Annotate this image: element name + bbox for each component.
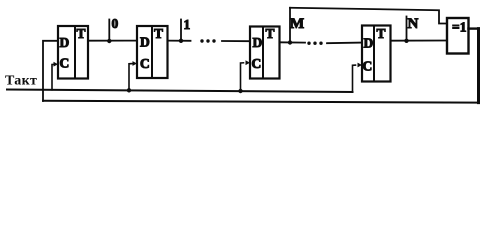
svg-text:D: D — [253, 35, 263, 50]
svg-text:C: C — [60, 56, 70, 71]
wire DD3.Q to tap M — [280, 41, 306, 43]
flip-flop DD4 divider — [373, 26, 375, 82]
flip-flop DD4 box — [362, 26, 391, 82]
wire clock stub DD2 — [129, 64, 132, 91]
svg-text:=1: =1 — [452, 20, 467, 35]
ellipsis dots left — [200, 39, 203, 42]
node tap 0 junction — [107, 39, 111, 43]
ellipsis dots right — [307, 42, 310, 45]
svg-text:0: 0 — [112, 16, 119, 31]
flip-flop DD1 divider — [74, 26, 76, 79]
wire into DD4 — [327, 42, 362, 45]
clock arrow DD4 — [358, 63, 363, 68]
wire tap M riser — [289, 8, 291, 43]
wire tap N — [406, 17, 408, 41]
svg-text:C: C — [363, 59, 373, 74]
node clock junction DD3 — [238, 89, 242, 93]
wire feedback bottom — [43, 101, 479, 103]
svg-text:1: 1 — [184, 17, 191, 32]
svg-text:T: T — [77, 26, 86, 41]
clock arrow DD1 — [54, 62, 59, 67]
svg-text:T: T — [266, 26, 275, 41]
wire feedback riser — [43, 41, 58, 101]
svg-text:Такт: Такт — [5, 74, 37, 89]
node tap 1 junction — [179, 39, 183, 43]
svg-text:T: T — [377, 26, 386, 41]
wire top bus M to XOR — [290, 8, 447, 24]
wire xor output — [469, 27, 479, 29]
wire tap 1 — [180, 20, 182, 41]
wire DD1.Q to DD2.D — [88, 40, 137, 42]
wire clock stub DD3 — [241, 63, 244, 91]
node tap M junction — [288, 40, 292, 44]
flip-flop DD3 box — [250, 27, 280, 79]
clock arrow DD3 — [246, 60, 251, 65]
svg-text:N: N — [408, 16, 419, 32]
flip-flop DD2 divider — [151, 26, 153, 78]
xor gate =1 box — [447, 18, 469, 54]
svg-text:C: C — [252, 56, 262, 71]
svg-text:M: M — [290, 16, 304, 32]
node clock junction DD2 — [127, 88, 131, 92]
clock arrow DD2 — [133, 61, 138, 66]
svg-text:D: D — [60, 35, 70, 50]
wire into DD3 — [222, 40, 250, 42]
wire clock stub DD1 — [52, 64, 55, 90]
wire DD4.Q to XOR — [391, 40, 448, 42]
svg-text:D: D — [140, 35, 150, 50]
svg-text:D: D — [364, 36, 374, 51]
svg-text:T: T — [154, 26, 163, 41]
flip-flop DD2 box — [137, 26, 168, 78]
wire tap 0 — [108, 20, 110, 42]
wire DD2.Q to tap 1 — [168, 40, 191, 42]
wire clock stub DD4 — [353, 65, 356, 92]
node tap N junction — [404, 39, 408, 43]
flip-flop DD1 box — [58, 26, 88, 79]
svg-text:C: C — [140, 56, 150, 71]
wire clock bus — [7, 90, 353, 93]
flip-flop DD3 divider — [262, 27, 264, 79]
